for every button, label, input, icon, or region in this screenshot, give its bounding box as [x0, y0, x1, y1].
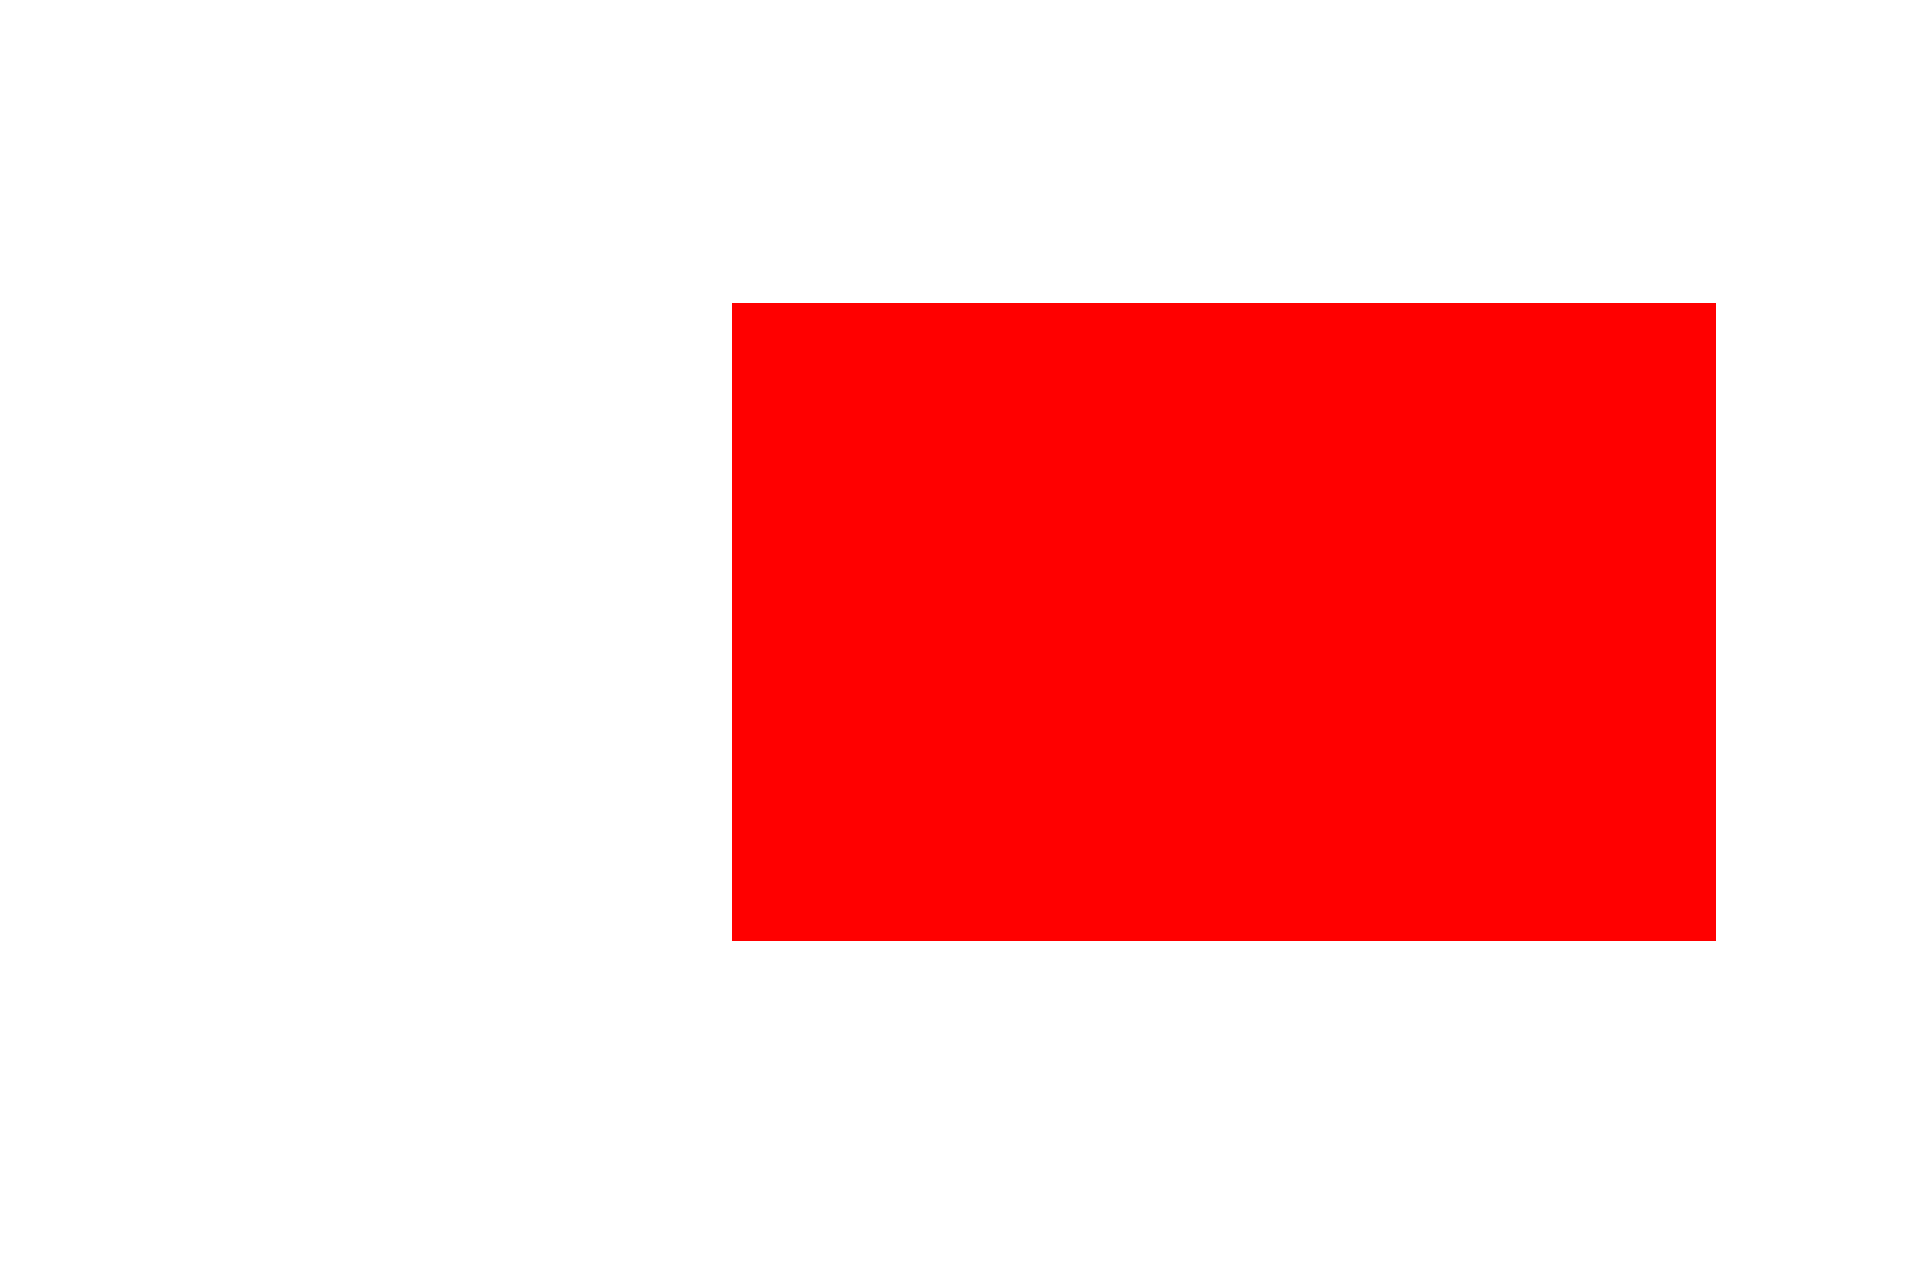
red rectangle [732, 303, 1716, 941]
